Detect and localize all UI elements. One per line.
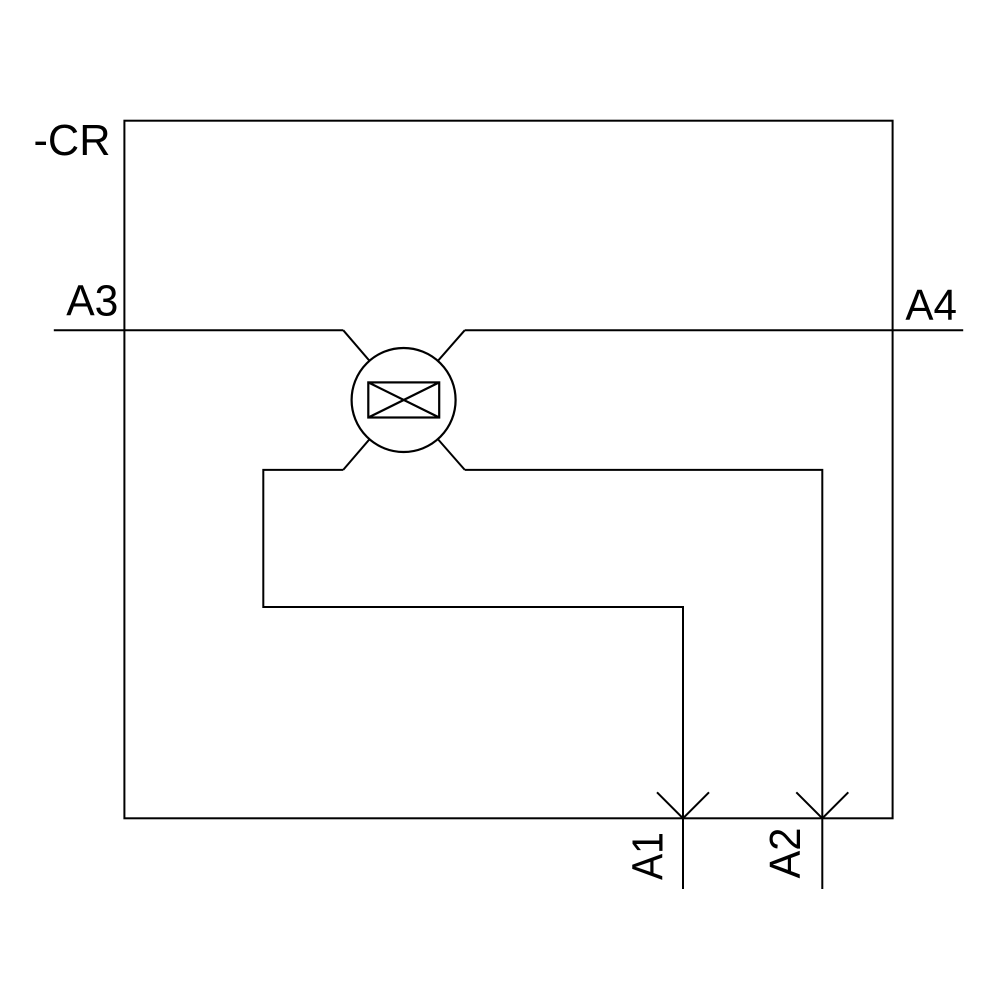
- wire A3 terminal line: [54, 329, 343, 331]
- wire diagonal coil to A1 branch: [343, 413, 392, 470]
- wire diagonal A4 to coil: [415, 330, 465, 387]
- arrow terminal A1: [657, 792, 709, 818]
- wire diagonal coil to A2 branch: [415, 413, 465, 470]
- wire A1 branch path: [263, 470, 683, 889]
- wire A2 branch path: [465, 470, 823, 889]
- svg-text:-CR: -CR: [34, 117, 111, 165]
- svg-text:A3: A3: [66, 278, 118, 326]
- svg-text:A2: A2: [762, 828, 810, 879]
- coil K1 cross diagonal 1: [368, 382, 439, 417]
- wire diagonal A3 to coil: [343, 330, 392, 387]
- wire A4 terminal line: [465, 329, 963, 331]
- coil K1 cross diagonal 2: [368, 382, 439, 417]
- coil K1 winding rectangle: [368, 382, 439, 417]
- arrow terminal A2: [796, 792, 848, 818]
- coil K1 circle: [352, 348, 456, 452]
- relay coil CR enclosure outline: [124, 121, 892, 819]
- svg-text:A4: A4: [905, 282, 957, 330]
- svg-text:A1: A1: [625, 832, 673, 880]
